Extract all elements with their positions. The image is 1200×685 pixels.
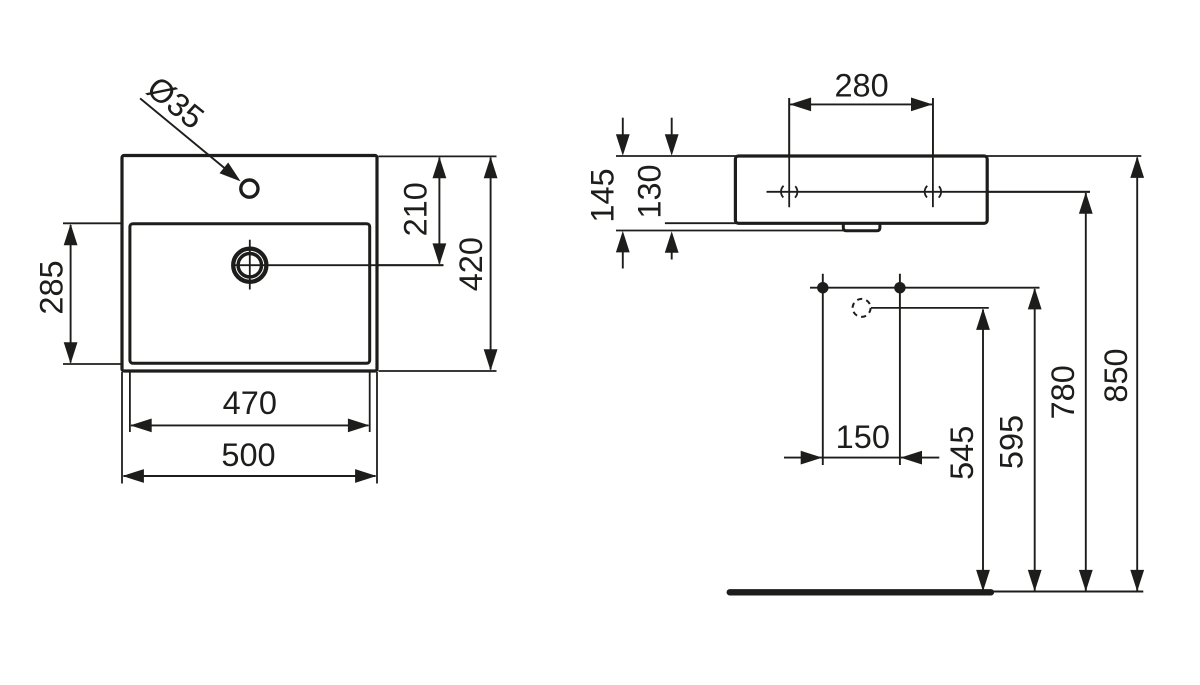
svg-text:Ø35: Ø35 xyxy=(140,69,210,136)
svg-text:280: 280 xyxy=(834,68,888,104)
svg-text:145: 145 xyxy=(584,168,620,222)
svg-text:850: 850 xyxy=(1098,348,1134,402)
svg-text:130: 130 xyxy=(632,164,668,218)
svg-text:210: 210 xyxy=(398,182,434,236)
svg-text:420: 420 xyxy=(453,237,489,291)
svg-text:595: 595 xyxy=(993,415,1029,469)
svg-text:285: 285 xyxy=(33,260,69,314)
svg-text:470: 470 xyxy=(223,385,277,421)
svg-text:545: 545 xyxy=(944,426,980,480)
svg-text:780: 780 xyxy=(1045,365,1081,419)
svg-text:150: 150 xyxy=(836,419,890,455)
svg-text:500: 500 xyxy=(221,437,275,473)
